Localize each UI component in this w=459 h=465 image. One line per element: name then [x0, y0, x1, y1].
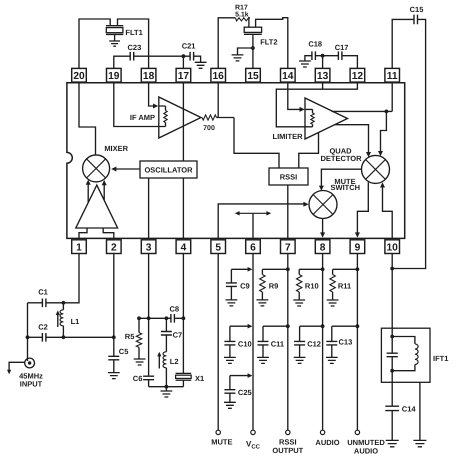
svg-text:C8: C8 [170, 305, 180, 314]
wire oscillator to pin 4 [182, 178, 184, 238]
capacitor C12 [299, 326, 301, 341]
svg-text:C17: C17 [335, 43, 349, 52]
wire C6 to ground row [148, 380, 150, 387]
junction IFT1 bottom [390, 369, 394, 373]
svg-text:L1: L1 [71, 317, 80, 326]
resistor R10 [298, 269, 300, 274]
pin 17 box [176, 68, 191, 82]
pin 14 box [281, 68, 296, 82]
junction IFT1 top [390, 335, 394, 339]
svg-text:4: 4 [181, 242, 187, 253]
svg-text:C11: C11 [271, 340, 284, 349]
svg-text:5.1k: 5.1k [235, 10, 249, 18]
wire C13 to pin 9 [332, 325, 358, 327]
wire mute switch output to pin 8 with arrow [322, 219, 324, 235]
svg-text:MIXER: MIXER [104, 144, 128, 153]
wire amp base to pin 2 [103, 228, 114, 238]
C13 ground [331, 345, 333, 358]
svg-text:C15: C15 [410, 5, 424, 14]
wire pin 19 to IF amp coil [114, 83, 166, 127]
svg-text:19: 19 [108, 71, 120, 82]
svg-text:C10: C10 [238, 340, 252, 349]
wire rail to C2 [28, 336, 43, 338]
wire pin 1 to C1 [46, 254, 79, 303]
ceramic filter FLT2 [244, 27, 261, 32]
junction L2 bottom [165, 385, 169, 389]
svg-text:20: 20 [73, 71, 85, 82]
capacitor C25 [229, 376, 231, 390]
capacitor C13 [331, 326, 333, 341]
wire limiter to quad detector left input with arrow [335, 125, 369, 155]
C11 ground [262, 345, 264, 358]
wire pin 13 up to node [322, 56, 324, 69]
wire C8 to pin 4 node [174, 317, 183, 319]
resistor R5 [138, 318, 140, 332]
capacitor C10 [229, 326, 231, 341]
wire C23 to pin 17 node [134, 55, 190, 57]
svg-text:3: 3 [146, 242, 152, 253]
svg-text:C9: C9 [240, 282, 250, 291]
svg-text:MUTE: MUTE [211, 437, 232, 446]
IFT1 internal wire [391, 328, 393, 353]
IFT1 capacitor [387, 353, 398, 357]
svg-text:C7: C7 [173, 330, 183, 339]
wire pin 9 to UNMUTED AUDIO terminal [356, 254, 358, 431]
mixer MX1 cross [87, 159, 106, 178]
C25 ground [229, 393, 231, 402]
wire R9 to pin 7 [262, 268, 287, 270]
limiter triangle [305, 98, 348, 139]
RSSI block [269, 168, 308, 185]
wire pin 5 to mute switch input with arrow [218, 204, 306, 239]
crystal X1 [176, 372, 192, 374]
svg-text:C21: C21 [182, 41, 196, 50]
MUTE terminal [216, 430, 220, 434]
capacitor C18 [312, 51, 316, 60]
wire pin 7 to RSSI OUTPUT terminal [287, 254, 289, 431]
svg-text:X1: X1 [195, 374, 204, 383]
wire pin 16 up to R17 [218, 18, 235, 69]
ground row wire [149, 386, 184, 388]
wire pin 18 to IF amp input with arrow [149, 83, 156, 106]
wire C9 to pin 6 with arrow [231, 268, 249, 270]
wire pin 10 down to IFT1 [391, 254, 393, 329]
amp to mixer right wire with up arrow [103, 182, 105, 201]
wire oscillator to pin 3 [148, 178, 150, 238]
wire pin 8 to AUDIO terminal [322, 254, 324, 431]
wire C2 to pin 2 node [46, 336, 114, 338]
pin 4 box [176, 240, 191, 254]
wire pin 3 down to C6 [148, 254, 150, 377]
capacitor C9 [230, 269, 232, 283]
svg-text:C1: C1 [38, 287, 48, 296]
svg-text:15: 15 [247, 71, 259, 82]
wire quad detector to mute switch with arrow [321, 169, 361, 188]
C18 ground [299, 61, 311, 67]
svg-text:FLT2: FLT2 [260, 38, 277, 47]
svg-text:C23: C23 [128, 43, 142, 52]
wire limiter output to pin 11 [332, 110, 393, 112]
junction R9 pin 7 [286, 267, 290, 271]
capacitor C1 [42, 299, 46, 308]
capacitor C11 [262, 326, 264, 341]
pin 6 box [246, 240, 261, 254]
capacitor C5 [108, 356, 119, 360]
svg-text:SWITCH: SWITCH [331, 183, 361, 192]
wire R17 to FLT2 [248, 18, 251, 27]
svg-text:18: 18 [143, 71, 155, 82]
R11 ground [327, 300, 339, 306]
svg-text:RSSI: RSSI [279, 437, 297, 446]
junction C11 pin 7 [286, 324, 290, 328]
C9 ground [230, 286, 232, 300]
pin 19 box [107, 68, 122, 82]
mute switch circle [309, 191, 337, 219]
resistor R11 [332, 269, 334, 274]
svg-text:11: 11 [387, 71, 398, 82]
quad detector circle [362, 155, 390, 183]
junction L1 bottom [62, 335, 66, 339]
wire pin 6 stub [252, 213, 254, 238]
wire pin 11 up to C15 [392, 19, 414, 68]
svg-text:10: 10 [387, 242, 399, 253]
wire IF amp output to pin 16 [217, 117, 235, 119]
mixer MX1 circle [83, 155, 110, 182]
svg-text:IFT1: IFT1 [433, 354, 448, 363]
pin 8 box [315, 240, 330, 254]
svg-text:R10: R10 [305, 282, 319, 291]
wire pins 12 13 to limiter coil [276, 83, 357, 127]
wire pin 5 to MUTE terminal [217, 254, 219, 431]
wire pin 13 stub to bus [322, 83, 324, 89]
pin 9 box [350, 240, 365, 254]
IC U1 body outline with pin-1 notch [67, 83, 405, 239]
svg-text:C13: C13 [339, 338, 353, 347]
wire C10 to pin 6 with arrow [230, 325, 249, 327]
pin 20 box [72, 68, 87, 82]
svg-text:FLT1: FLT1 [125, 28, 142, 37]
IFT1 shield box [381, 328, 430, 382]
wire pin 14 to limiter input with arrow [288, 83, 303, 110]
svg-text:R11: R11 [338, 282, 351, 291]
pin 1 box [72, 240, 87, 254]
pin 5 box [211, 240, 226, 254]
svg-text:7: 7 [285, 242, 291, 253]
svg-text:C18: C18 [308, 40, 322, 49]
junction L1 top [62, 301, 66, 305]
C21 ground [194, 56, 201, 62]
svg-text:L2: L2 [170, 357, 179, 366]
junction C2 left [26, 335, 30, 339]
FLT2 ground [238, 48, 253, 55]
RF input connector [27, 358, 29, 361]
capacitor C7 [165, 318, 167, 331]
capacitor C14 [385, 406, 399, 410]
pin 16 box [211, 68, 226, 82]
IFT1 coil [392, 337, 415, 344]
pin 12 box [350, 68, 365, 82]
wire C25 to pin 6 with arrow [230, 375, 249, 377]
pin 7 box [281, 240, 296, 254]
svg-text:1: 1 [76, 242, 82, 253]
wire R11 to pin 9 [333, 268, 358, 270]
junction R5 top [137, 316, 141, 320]
pin 13 box [315, 68, 330, 82]
wire pin 17 up to node [182, 56, 184, 68]
pin 10 box [385, 240, 400, 254]
bias row wire R5 to C8 [139, 317, 171, 319]
svg-text:16: 16 [213, 71, 225, 82]
wire FLT2 to pin 15 [252, 34, 254, 68]
wire RSSI to pin 7 [287, 185, 289, 238]
junction C12 pin 8 [321, 324, 325, 328]
junction R10 pin 8 [321, 267, 325, 271]
svg-text:OSCILLATOR: OSCILLATOR [144, 165, 193, 174]
resistor 700 at IF amp output [202, 115, 217, 120]
input amplifier A1 triangle [76, 185, 118, 228]
junction pin 3 row [147, 316, 151, 320]
C5 ground [113, 360, 115, 373]
ceramic filter FLT1 [106, 25, 123, 27]
quad detector cross [366, 160, 386, 180]
svg-text:R5: R5 [125, 332, 135, 341]
wire C18 to pin 13 node [315, 55, 338, 57]
wire pin 10 to quad detector with up arrow [383, 185, 393, 238]
svg-text:C5: C5 [119, 347, 129, 356]
capacitor C21 [190, 52, 194, 61]
junction R11 pin 9 [356, 267, 360, 271]
svg-text:2: 2 [111, 242, 117, 253]
R9 ground [257, 300, 269, 306]
RSSI OUTPUT terminal [286, 430, 290, 434]
wire pin 6 to VCC terminal [252, 254, 254, 431]
wire pin 20 up to FLT1 [79, 19, 110, 68]
resistor R9 [261, 269, 263, 274]
svg-text:AUDIO: AUDIO [354, 446, 378, 455]
variable inductor L2 [165, 335, 167, 352]
wire pin 2 down to C5 [113, 254, 115, 357]
svg-text:9: 9 [355, 242, 361, 253]
oscillator block [140, 161, 197, 178]
svg-text:C2: C2 [38, 323, 48, 332]
svg-text:C14: C14 [402, 405, 417, 414]
input rail [27, 303, 29, 358]
wire limiter output to quad detector right input with arrow [381, 111, 387, 153]
wire amp base to pin 1 [79, 228, 87, 238]
svg-text:LIMITER: LIMITER [273, 132, 304, 141]
limiter internal resistor [305, 109, 313, 113]
svg-text:14: 14 [282, 71, 294, 82]
mute switch cross [313, 195, 333, 215]
R10 ground [293, 300, 305, 306]
resistor R17 [235, 18, 249, 21]
C12 ground [299, 345, 301, 358]
svg-text:C6: C6 [133, 374, 143, 383]
junction C13 pin 9 [356, 324, 360, 328]
variable inductor L1 [62, 303, 64, 310]
junction at limiter output [385, 110, 389, 114]
FLT1 ground [114, 34, 116, 41]
C10 ground [229, 345, 231, 358]
pin 3 box [141, 240, 156, 254]
wire C11 to pin 7 [263, 325, 288, 327]
junction pin 4 row [182, 316, 186, 320]
wire C15 to pin 10 node [392, 19, 425, 268]
junction pin 10 C15 node [390, 267, 394, 271]
capacitor C6 [143, 376, 154, 380]
C14 ground [391, 411, 393, 441]
oscillator to mixer wire with arrow [113, 168, 140, 170]
AUDIO terminal [320, 430, 324, 434]
wire FLT2 to pin 14 [256, 18, 288, 69]
svg-text:6: 6 [250, 242, 256, 253]
junction pin 2 node [112, 335, 116, 339]
capacitor C23 [130, 52, 134, 61]
junction C7 top [165, 316, 169, 320]
svg-text:C25: C25 [238, 388, 252, 397]
pin 2 box [107, 240, 122, 254]
double headed arrow at pin 6 [237, 212, 269, 214]
svg-text:17: 17 [178, 71, 190, 82]
IFT1 shield ground [419, 382, 421, 440]
wire IF amp output to RSSI block [234, 118, 279, 169]
svg-text:OUTPUT: OUTPUT [272, 446, 303, 455]
junction FLT2 ground node [251, 46, 255, 50]
wire limiter to RSSI block [299, 133, 319, 169]
capacitor C8 [171, 314, 175, 323]
IF amp internal resistor [159, 106, 166, 111]
wire R10 to pin 8 [299, 268, 322, 270]
svg-text:13: 13 [317, 71, 329, 82]
capacitor C2 [42, 333, 46, 342]
wire pin 4 down to X1 [182, 254, 184, 374]
svg-text:RSSI: RSSI [280, 173, 298, 182]
wire pin 17 to oscillator top [182, 83, 184, 161]
input arrow [9, 362, 25, 371]
junction at pin 13 node [321, 54, 325, 58]
pin 18 box [141, 68, 156, 82]
capacitor C17 [338, 51, 342, 60]
wire pin 19 up to C23 [114, 56, 130, 68]
pin 15 box [246, 68, 261, 82]
wire IFT1 to C14 [391, 382, 393, 406]
svg-text:5: 5 [215, 242, 221, 253]
svg-text:AUDIO: AUDIO [315, 438, 339, 447]
capacitor C15 [414, 15, 418, 25]
IF amplifier triangle [159, 97, 201, 138]
svg-text:R17: R17 [235, 4, 248, 11]
UNMUTED AUDIO terminal [355, 430, 359, 434]
pin 11 box [385, 68, 400, 82]
svg-text:R9: R9 [269, 282, 279, 291]
wire C17 to pin 12 [342, 56, 358, 69]
svg-text:C12: C12 [307, 340, 321, 349]
amp to mixer left wire with up arrow [87, 182, 89, 203]
svg-text:12: 12 [352, 71, 364, 82]
svg-text:IF AMP: IF AMP [130, 113, 155, 122]
svg-text:DETECTOR: DETECTOR [320, 154, 362, 163]
R5 ground [134, 359, 146, 365]
svg-text:8: 8 [320, 242, 326, 253]
ground row ground symbol [165, 387, 167, 391]
wire pin 20 to mixer top [79, 83, 96, 155]
wire quad detector output to pin 9 with arrow [357, 182, 368, 235]
svg-text:700: 700 [203, 125, 215, 132]
wire FLT1 to pin 18 [118, 19, 149, 68]
wire C1 to input rail [28, 302, 43, 304]
wire C12 to pin 8 [300, 325, 323, 327]
svg-text:INPUT: INPUT [20, 379, 43, 388]
VCC terminal [251, 430, 255, 434]
junction at pin 17 node [182, 54, 186, 58]
